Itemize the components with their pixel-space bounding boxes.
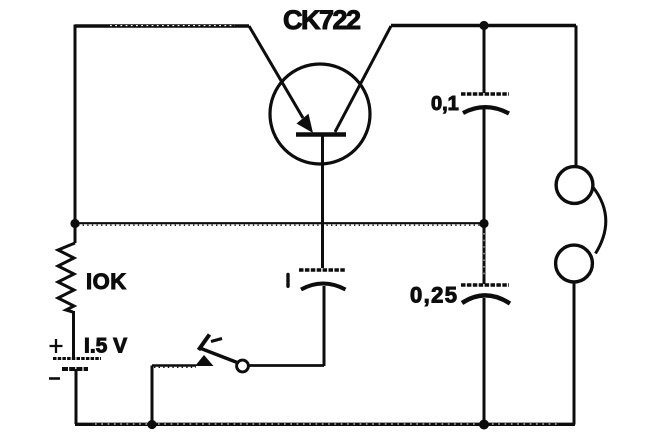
capacitor C1 curved plate (arch) <box>301 284 346 290</box>
switch S1 blade (key lever) <box>201 349 239 364</box>
svg-text:I.5 V: I.5 V <box>84 335 127 358</box>
node: bottom-right junction dot <box>479 420 489 430</box>
switch S1 fixed contact triangle <box>195 355 214 366</box>
headphones LS1 upper earpiece <box>556 167 593 204</box>
wire: switch branch horizontal to fixed contact <box>152 364 196 366</box>
capacitor C1 straight plate <box>299 268 346 272</box>
svg-text:0,1: 0,1 <box>431 93 459 115</box>
transistor Q1 emitter lead (diagonal from top-left wire) <box>249 26 303 118</box>
wire: capacitor C3 top lead <box>483 224 486 285</box>
wire: from switch pivot to capacitor C1 bottom lead <box>249 364 324 367</box>
wire: left rail between resistor and battery <box>72 311 75 358</box>
svg-text:IOK: IOK <box>86 269 127 294</box>
node A junction dot (left rail / mid wire) <box>70 219 79 228</box>
transistor Q1 CK722 circle <box>270 64 370 164</box>
wire: transistor base lead down to capacitor C1 (crosses mid wire, no dot) <box>321 136 324 268</box>
wire: left rail below battery to bottom rail <box>75 369 78 424</box>
capacitor C2 curved plate (arch) <box>463 107 509 113</box>
switch S1 key handle knob dash <box>211 339 222 342</box>
capacitor C3 curved plate (arch) <box>462 295 510 303</box>
wire: switch branch vertical <box>151 366 154 425</box>
capacitor C2 straight plate <box>461 92 509 96</box>
node: mid-right junction dot <box>479 219 488 228</box>
transistor Q1 base bar <box>296 132 346 136</box>
battery B1 plus sign <box>50 339 63 353</box>
switch S1 key handle crossbar <box>199 335 210 351</box>
wire: capacitor C2 top lead <box>483 26 486 94</box>
node: bottom rail / switch branch junction dot <box>147 420 156 429</box>
battery B1 minus sign <box>49 377 60 380</box>
wire: capacitor C1 bottom lead vertical <box>323 286 326 366</box>
svg-text:0,25: 0,25 <box>410 283 457 308</box>
node: top-right junction dot (capacitor C2 top) <box>479 21 488 30</box>
wire: top-right horizontal from collector to right rail <box>391 24 576 27</box>
transistor Q1 collector lead (diagonal to top-right wire) <box>335 26 391 132</box>
wire: right vertical rail down to headphones <box>575 26 578 168</box>
headphones LS1 lower earpiece <box>556 245 593 282</box>
capacitor C3 straight plate <box>461 283 509 287</box>
transistor Q1 emitter arrowhead <box>297 114 314 133</box>
wire: top-left horizontal from left rail to emitter lead <box>75 24 249 27</box>
wire: headphones bottom lead to bottom rail <box>573 281 576 425</box>
battery B1 negative short plate <box>62 367 88 371</box>
wire: capacitor C3 bottom lead to bottom rail <box>483 298 486 425</box>
wire: capacitor C2 bottom lead to mid node <box>483 108 486 224</box>
wire: bottom horizontal rail <box>75 423 575 426</box>
headphones LS1 headband arc <box>593 187 606 254</box>
resistor R1 10K zigzag <box>58 243 75 312</box>
wire: mid horizontal from node A to capacitor C2 node <box>75 222 484 224</box>
wire: left vertical rail (top section) <box>74 25 77 244</box>
capacitor C1 value label 1 <box>286 275 289 288</box>
battery B1 positive long plate <box>53 357 101 360</box>
svg-text:CK722: CK722 <box>283 5 361 35</box>
switch S1 pivot contact circle <box>237 360 249 372</box>
